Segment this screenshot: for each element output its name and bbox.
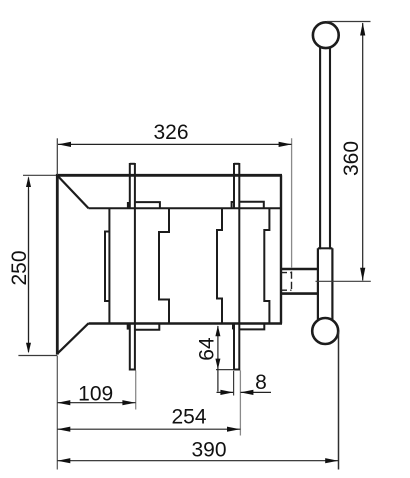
svg-text:390: 390	[191, 439, 226, 462]
svg-text:250: 250	[8, 250, 31, 285]
svg-text:64: 64	[195, 337, 218, 361]
svg-text:109: 109	[78, 383, 113, 406]
svg-text:254: 254	[171, 406, 206, 429]
svg-text:8: 8	[255, 371, 267, 394]
svg-text:360: 360	[340, 141, 363, 176]
svg-text:326: 326	[153, 121, 188, 144]
